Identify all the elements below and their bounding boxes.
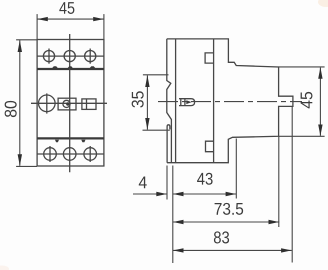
front view vertical centerline <box>69 34 71 172</box>
test button box <box>82 99 96 110</box>
front face line <box>175 39 177 163</box>
front view outline <box>37 40 104 167</box>
rotary knob circle <box>39 95 56 112</box>
top notch <box>205 53 214 63</box>
dimension 73.5 <box>173 221 279 223</box>
bottom terminal circle 2 <box>63 148 76 161</box>
bottom terminal circle 1 <box>44 148 57 161</box>
dimension 4 <box>133 193 167 195</box>
reset button inner circle <box>63 100 70 107</box>
reset button box <box>58 98 76 110</box>
extension lines below side view <box>167 106 292 263</box>
corner smudge bottom-left <box>0 266 9 270</box>
dimension 83 <box>173 249 292 251</box>
left profile lower outer line <box>166 131 168 163</box>
internal edge line <box>213 39 215 163</box>
front view separator line top (thick) <box>37 68 104 70</box>
middle row centerline <box>31 102 107 104</box>
top terminal row centerline <box>37 55 104 57</box>
horizontal centerline (dash-dot) <box>158 101 302 103</box>
DIN clip hook <box>167 125 170 131</box>
bottom notch <box>206 141 214 152</box>
corner smudge top-right <box>318 0 328 7</box>
bottom terminal circle 3 <box>84 148 97 161</box>
mounting slot tab <box>179 99 195 106</box>
side view left profile <box>167 39 172 163</box>
top terminal circle 3 <box>85 51 96 62</box>
dimension 45 (right height) <box>279 67 325 136</box>
bottom terminal row centerline <box>37 153 104 155</box>
slot pointer <box>186 100 191 104</box>
front view separator line bottom (thick) <box>37 137 104 139</box>
dimension 80 (left height) <box>16 40 37 167</box>
top terminal circle 1 <box>43 51 54 62</box>
side view <box>167 39 293 163</box>
top terminal circle 2 <box>64 51 75 62</box>
dimension 35 (left of side view) <box>143 75 170 130</box>
clamp wedge marks <box>52 66 96 142</box>
dimension 43 <box>173 193 237 195</box>
dimension 45 (top width) <box>37 14 104 39</box>
side view outer outline (top, right, bottom) <box>167 39 293 163</box>
